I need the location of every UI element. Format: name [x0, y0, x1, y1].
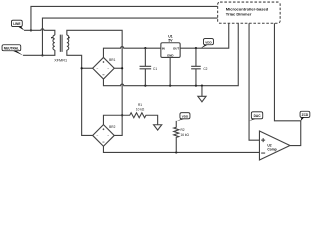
transformer XFMR1 primary winding: [53, 35, 55, 50]
wire: DAC pin to comparator non-inverting input: [249, 23, 259, 140]
svg-text:16 kΩ: 16 kΩ: [180, 133, 189, 137]
svg-text:C1: C1: [153, 67, 157, 71]
bridge rectifier BR1: [93, 57, 115, 79]
resistor R2: [174, 121, 179, 153]
wire: LINE wire with hop over neutral drop: [24, 29, 55, 35]
wire: secondary bottom to left vertical x=81.2 down to BR2 left: [67, 50, 93, 135]
node: R1 / BR2 top / AC vertical junction: [121, 114, 123, 116]
node: junction NEUTRAL wire: [41, 54, 43, 56]
node: BR1 right junction on AC vertical: [121, 67, 123, 69]
svg-text:Comp: Comp: [267, 148, 276, 152]
svg-text:IN: IN: [162, 46, 165, 50]
svg-text:~: ~: [96, 67, 98, 71]
node: C1 bottom junction: [144, 85, 146, 87]
resistor R1: [122, 113, 158, 125]
wire: LINE hot top wire to dimmer box: [31, 6, 218, 30]
net label DAC: [249, 112, 263, 121]
wire: BR2 top corner to junction: [103, 115, 122, 124]
node: junction at x=81.2: [81, 67, 83, 69]
svg-text:5V: 5V: [168, 38, 173, 42]
ground (near C2): [201, 86, 203, 97]
transformer polarity dot primary: [51, 37, 53, 39]
wire: U1 GND pin: [169, 57, 171, 85]
wire: NEUTRAL to dimmer box: [42, 18, 217, 55]
svg-text:~: ~: [96, 134, 98, 138]
node: ground symbol junction: [201, 85, 203, 87]
wire: secondary top to AC line vertical x=121.7 down to BR2 right: [67, 30, 122, 135]
transformer XFMR1 core: [60, 35, 62, 52]
capacitor C2: [191, 48, 201, 85]
wire: +V rail from BR1 top to U1 IN (hop over AC vertical): [103, 47, 160, 58]
net label ZCD: [300, 111, 310, 121]
net label VDD (regulator output): [201, 39, 214, 49]
svg-text:XFMR1: XFMR1: [54, 59, 67, 63]
svg-text:C2: C2: [203, 67, 207, 71]
svg-text:LINE: LINE: [13, 22, 20, 26]
svg-text:Triac Dimmer: Triac Dimmer: [226, 12, 252, 17]
net label NEUTRAL: [2, 45, 23, 56]
wire: BR2 bottom to comparator inverting input: [103, 146, 259, 152]
node: U1 GND junction: [169, 85, 171, 87]
svg-text:BR2: BR2: [109, 125, 115, 129]
svg-text:NEUTRAL: NEUTRAL: [4, 47, 19, 51]
wire: ground rail from BR1 bottom to dimmer GND pin (hop over AC vertical): [103, 23, 238, 85]
node: C2 top junction: [195, 47, 197, 49]
ground (after R1): [154, 125, 162, 130]
node: C1 top junction: [144, 47, 146, 49]
svg-text:DAC: DAC: [254, 114, 262, 118]
bridge rectifier BR2: [93, 125, 115, 147]
svg-text:VDD: VDD: [205, 41, 212, 45]
capacitor C1: [140, 48, 152, 85]
node: junction LINE/top wire: [30, 29, 32, 31]
svg-text:R2: R2: [180, 128, 184, 132]
transformer XFMR1 secondary winding: [67, 35, 69, 50]
svg-text:BR1: BR1: [109, 58, 115, 62]
wire: comparator output to ZCD pin: [274, 23, 300, 145]
svg-text:VDD: VDD: [182, 115, 189, 119]
microcontroller dashed box: [218, 2, 281, 23]
node: R2 bottom junction: [175, 151, 177, 153]
svg-text:~: ~: [107, 67, 109, 71]
voltage regulator U1: [161, 43, 180, 58]
svg-text:GND: GND: [167, 54, 173, 58]
svg-text:OUT: OUT: [173, 46, 179, 50]
net label VDD (R2 pull-up): [176, 113, 190, 122]
wire: NEUTRAL wire to transformer primary bottom: [23, 50, 55, 55]
wire: BR1 left AC input: [82, 67, 93, 69]
svg-text:10 kΩ: 10 kΩ: [136, 107, 145, 111]
op-amp U2 comparator: [259, 131, 290, 160]
svg-text:~: ~: [107, 134, 109, 138]
transformer polarity dot secondary: [68, 37, 70, 39]
svg-text:ZCD: ZCD: [302, 113, 309, 117]
wire: +5V rail U1 OUT to dimmer VDD pin: [180, 23, 229, 48]
node: C2 bottom junction: [195, 85, 197, 87]
wire: BR1 right AC input: [114, 67, 122, 69]
net label LINE: [11, 20, 24, 30]
